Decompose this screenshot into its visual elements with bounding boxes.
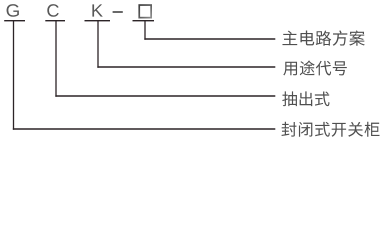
- wire: vertical from K underline: [97, 20, 98, 68]
- wire: vertical from C underline: [55, 20, 56, 97]
- label 3: 抽出式 (draw-out type): [282, 91, 329, 106]
- placeholder square: [139, 5, 151, 18]
- letter G: [7, 4, 19, 17]
- underline under G: [4, 20, 25, 21]
- wire: horizontal to label 3: [55, 95, 275, 97]
- label 4: 封闭式开关柜 (enclosed switchgear): [282, 122, 380, 137]
- wire: horizontal to label 4: [13, 128, 275, 130]
- underline under square: [133, 20, 155, 21]
- underline under K: [85, 20, 111, 21]
- wire: vertical from square underline: [144, 20, 145, 40]
- wire: horizontal to label 1: [144, 38, 275, 40]
- hyphen separator: [113, 11, 123, 13]
- wire: vertical from G underline: [13, 20, 14, 130]
- underline under C: [45, 20, 65, 21]
- label 2: 用途代号 (application code): [283, 60, 346, 75]
- letter C: [47, 4, 59, 17]
- wire: horizontal to label 2: [97, 66, 275, 68]
- letter K: [92, 4, 102, 16]
- label 1: 主电路方案 (main circuit scheme): [282, 30, 364, 45]
